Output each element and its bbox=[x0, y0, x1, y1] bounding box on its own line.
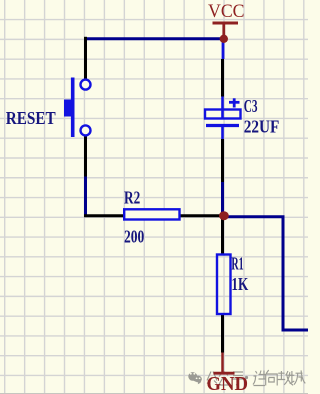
switch S1 pin 2 terminal circle bbox=[81, 125, 91, 135]
VCC power bar bbox=[213, 22, 239, 25]
svg-text:200: 200 bbox=[124, 227, 144, 247]
junction dot VCC rail bbox=[220, 35, 228, 43]
junction dot R2 R1 C3 node bbox=[219, 211, 229, 220]
watermark wechat icon big bubble bbox=[188, 372, 197, 382]
watermark char gong (behind GND) bbox=[207, 372, 217, 384]
wire left vertical below switch black part bbox=[84, 137, 87, 177]
wire right branch navy bbox=[224, 217, 308, 330]
pin C3 bottom blue bbox=[221, 127, 224, 139]
resistor R1 body bbox=[217, 255, 231, 315]
VCC power stub bbox=[222, 23, 225, 37]
capacitor C3 polarity plus bbox=[229, 98, 240, 107]
capacitor C3 bottom plate bbox=[206, 124, 239, 127]
svg-text:GND: GND bbox=[207, 374, 249, 394]
watermark char gong2 bbox=[278, 371, 294, 385]
wire mid vertical black above C3 bbox=[221, 59, 224, 97]
switch S1 pin 1 terminal circle bbox=[81, 80, 91, 90]
wire junction down to R1 bbox=[221, 216, 224, 255]
wire bottom horizontal right of R2 bbox=[179, 214, 224, 217]
wire left vertical below switch navy part bbox=[84, 177, 87, 218]
wire mid vertical navy above junction bbox=[221, 182, 224, 216]
svg-text:R2: R2 bbox=[124, 187, 140, 207]
watermark char zhong (behind GND) bbox=[219, 372, 228, 386]
svg-text:VCC: VCC bbox=[208, 1, 245, 22]
capacitor C3 top plate bbox=[205, 110, 241, 119]
bottom edge artifact line bbox=[0, 393, 308, 394]
pin C3 top blue bbox=[221, 97, 224, 119]
watermark wechat icon small bubble bbox=[195, 376, 202, 385]
GND power bar bbox=[214, 372, 235, 375]
watermark wechat icon big bubble eyes bbox=[190, 373, 196, 375]
switch S1 button bump bbox=[64, 100, 74, 117]
wire mid vertical black below C3 bbox=[221, 139, 224, 182]
wire left vertical upper to switch pin 1 bbox=[84, 37, 87, 79]
watermark char xiang bbox=[266, 370, 278, 386]
watermark char hao (behind GND) bbox=[232, 372, 245, 385]
watermark wechat icon small bubble eyes bbox=[196, 378, 201, 380]
svg-text:22UF: 22UF bbox=[244, 117, 280, 137]
switch S1 actuator bar bbox=[71, 78, 75, 138]
resistor R2 body bbox=[124, 209, 179, 219]
watermark char ni bbox=[253, 371, 266, 386]
wire top horizontal VCC rail bbox=[84, 37, 226, 40]
GND power stub bbox=[221, 353, 224, 374]
svg-text:C3: C3 bbox=[244, 96, 258, 116]
svg-text:1K: 1K bbox=[231, 274, 248, 294]
watermark char cheng bbox=[290, 370, 306, 384]
watermark separator dot bbox=[245, 376, 248, 379]
svg-text:R1: R1 bbox=[231, 253, 243, 273]
wire blue stub below VCC junction bbox=[222, 39, 225, 59]
wire bottom horizontal left of R2 bbox=[84, 214, 126, 217]
wire R1 down to GND bbox=[221, 314, 224, 353]
svg-text:RESET: RESET bbox=[6, 108, 56, 128]
